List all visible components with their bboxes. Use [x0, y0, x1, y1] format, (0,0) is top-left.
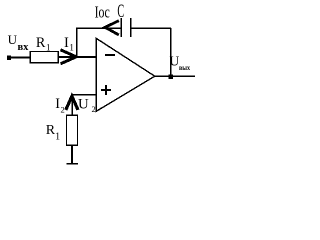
svg-text:U: U: [8, 32, 18, 47]
label I2: [55, 96, 65, 114]
label R1 bottom: [46, 123, 60, 143]
current arrow Ioc: [105, 21, 119, 35]
svg-text:1: 1: [69, 42, 74, 52]
resistor R1 ground leg: [66, 115, 77, 145]
svg-text:вых: вых: [179, 63, 190, 72]
svg-text:I: I: [64, 35, 69, 51]
wire to inverting input: [76, 56, 97, 58]
current arrow I2: [66, 96, 78, 110]
svg-text:I: I: [55, 96, 60, 112]
label Uвх: [8, 32, 30, 53]
wire input: [9, 57, 31, 59]
label U2: [78, 96, 96, 114]
wire feedback drop: [170, 28, 172, 76]
wire to ground: [71, 146, 73, 164]
node input terminal: [7, 56, 11, 60]
node output junction: [169, 75, 173, 79]
svg-text:2: 2: [92, 104, 96, 114]
svg-text:1: 1: [55, 132, 60, 143]
label R1: [36, 35, 51, 52]
svg-text:2: 2: [61, 105, 65, 115]
wire noninverting input: [72, 95, 97, 116]
svg-text:U: U: [169, 53, 179, 68]
svg-text:Ioc: Ioc: [95, 2, 111, 21]
ground: [67, 163, 79, 165]
svg-text:U: U: [78, 96, 89, 112]
svg-text:R: R: [36, 35, 46, 51]
resistor R1 input: [30, 51, 58, 62]
wire output: [155, 75, 196, 77]
label I1: [64, 35, 74, 52]
label Uвых: [169, 53, 190, 72]
wire feedback top right: [132, 27, 172, 29]
capacitor C: [121, 18, 131, 37]
svg-text:вх: вх: [18, 42, 30, 53]
svg-text:1: 1: [46, 42, 51, 52]
wire feedback riser: [76, 28, 78, 57]
op-amp U1: [96, 38, 155, 111]
wire feedback top left: [76, 27, 121, 29]
wire resistor to arrow: [59, 56, 76, 58]
current arrow I1: [61, 50, 77, 64]
